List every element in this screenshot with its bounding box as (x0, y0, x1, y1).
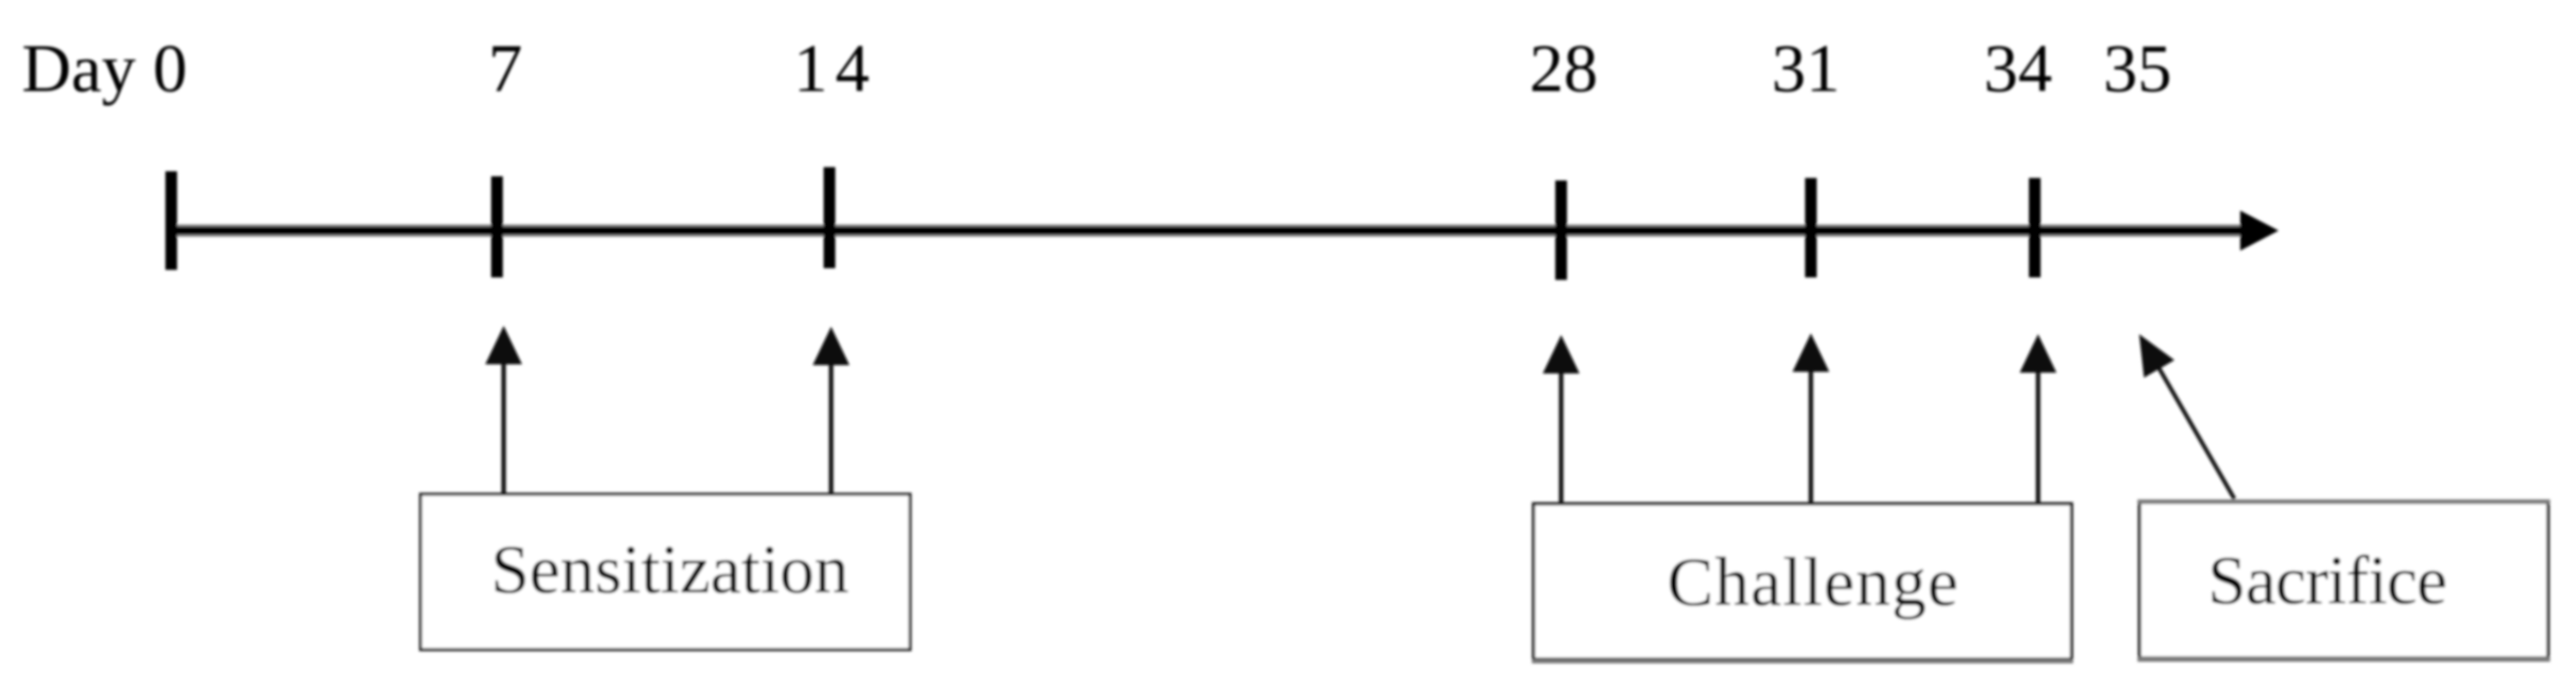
svg-text:34: 34 (1984, 30, 2052, 106)
svg-text:35: 35 (2103, 30, 2172, 106)
timeline arrowhead (2240, 211, 2279, 251)
svg-text:Day 0: Day 0 (22, 30, 187, 106)
svg-text:Sensitization: Sensitization (491, 531, 849, 607)
timeline axis (171, 226, 2242, 235)
box Sacrifice (2137, 502, 2550, 660)
tick day 14 (824, 167, 835, 268)
box Sensitization (421, 495, 910, 650)
svg-text:Sacrifice: Sacrifice (2208, 541, 2447, 618)
svg-text:14: 14 (794, 30, 877, 106)
arrow day 7 (485, 326, 522, 494)
tick day 31 (1805, 178, 1817, 277)
box Challenge (1532, 504, 2073, 662)
tick day 34 (2029, 178, 2041, 277)
arrow day 28 (1543, 335, 1580, 503)
arrow day 34 (2020, 334, 2056, 503)
svg-text:28: 28 (1529, 30, 1598, 106)
svg-text:Challenge: Challenge (1667, 543, 1960, 620)
arrow day 14 (813, 327, 849, 494)
timeline axis gray underlay (171, 225, 2242, 237)
svg-text:31: 31 (1772, 30, 1840, 106)
tick day 0 (165, 171, 177, 270)
arrow day 31 (1793, 333, 1829, 503)
svg-text:7: 7 (489, 30, 523, 106)
arrow day 35 diagonal (2139, 334, 2234, 499)
tick day 28 (1555, 180, 1567, 280)
tick day 7 (491, 176, 503, 277)
